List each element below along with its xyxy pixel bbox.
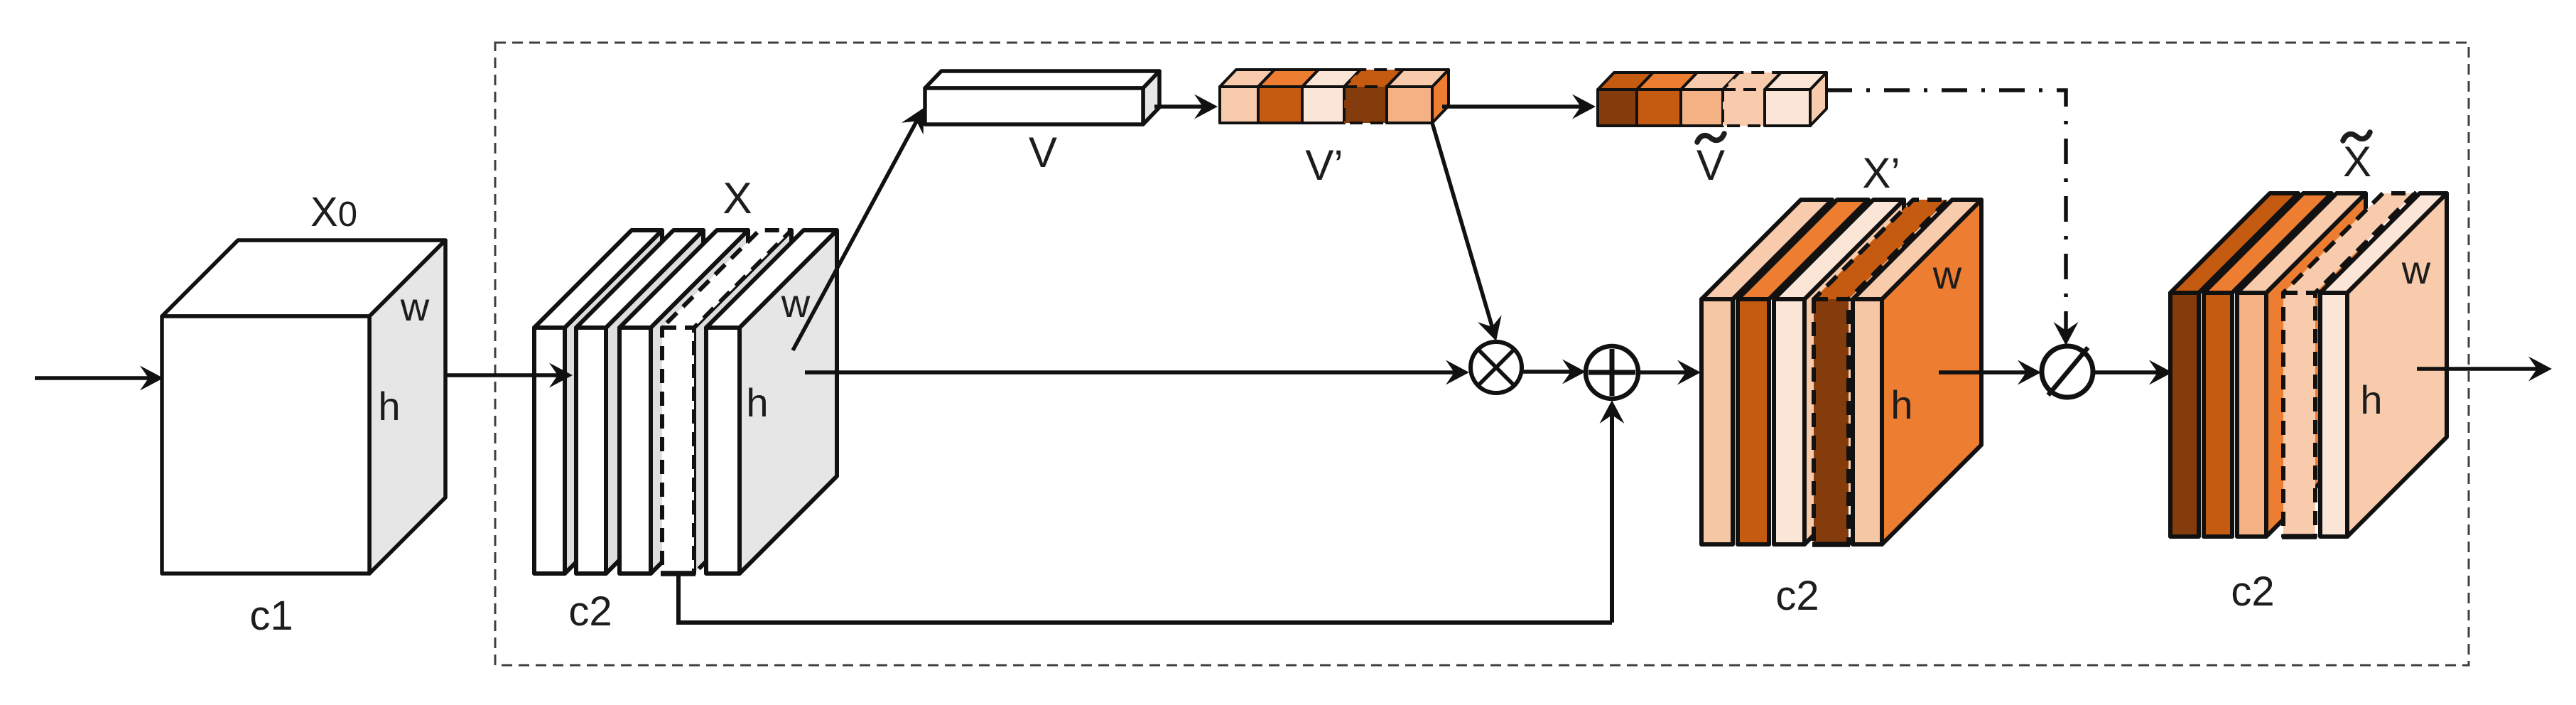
svg-text:w: w xyxy=(400,284,430,329)
X' stack slab 1 xyxy=(1701,200,1832,544)
wire feedback vertical arrow into add node xyxy=(1600,400,1625,623)
vector V' cell 4 (dashed) xyxy=(1344,70,1403,123)
svg-text:w: w xyxy=(2401,247,2431,292)
wire X' to scale node xyxy=(1939,360,2041,385)
wire feedback from X dashed slab to add node xyxy=(678,574,1612,623)
vector V' cell 2 xyxy=(1258,70,1319,123)
vector Vtilde cell 2 xyxy=(1637,72,1697,126)
wire output arrow xyxy=(2417,357,2552,382)
Xtilde stack slab 5 xyxy=(2320,193,2447,537)
wire X to multiply node xyxy=(805,360,1469,385)
svg-text:X: X xyxy=(723,174,752,223)
vector Vtilde cell 4 (dashed) xyxy=(1723,72,1781,126)
vector V' cell 5 xyxy=(1387,70,1449,123)
dashed enclosure box xyxy=(495,43,2469,665)
wire V' to multiply node diagonal arrow xyxy=(1432,123,1502,341)
wire scale node to Xtilde stack xyxy=(2094,360,2172,385)
wire V to V' arrow xyxy=(1154,95,1218,119)
svg-text:X’: X’ xyxy=(1862,149,1900,197)
svg-text:X0: X0 xyxy=(310,189,357,235)
svg-text:w: w xyxy=(781,281,811,325)
svg-text:h: h xyxy=(746,380,768,425)
svg-text:c1: c1 xyxy=(249,593,293,639)
svg-text:c2: c2 xyxy=(2231,569,2274,615)
X' stack slab 5 xyxy=(1853,200,1981,544)
Xtilde stack slab 1 xyxy=(2170,193,2298,537)
vector V' cell 1 xyxy=(1220,70,1275,123)
svg-text:w: w xyxy=(1932,252,1962,297)
vector Vtilde cell 3 xyxy=(1681,72,1739,126)
wire Vtilde to scale node dash-dot line xyxy=(1827,90,2079,345)
X stack slab 4 (dashed) xyxy=(661,230,791,574)
wire X to V diagonal arrow xyxy=(793,108,924,350)
X stack slab 1 xyxy=(534,230,662,574)
add node (circle-plus) xyxy=(1586,346,1638,399)
svg-text:h: h xyxy=(2360,377,2382,422)
svg-text:c2: c2 xyxy=(568,588,612,635)
vector Vtilde end face xyxy=(1810,72,1827,126)
vector V' cell 3 xyxy=(1302,70,1360,123)
scale node (circle-slash) xyxy=(2042,346,2093,397)
svg-text:c2: c2 xyxy=(1775,573,1819,619)
wire add node to X' stack xyxy=(1639,360,1701,385)
X' stack slab 3 xyxy=(1774,200,1904,544)
Xtilde stack slab 2 xyxy=(2204,193,2332,537)
multiply node (circle-cross) xyxy=(1471,342,1522,393)
X' stack slab 2 xyxy=(1738,200,1868,544)
Xtilde stack slab 4 (dashed) xyxy=(2282,193,2415,537)
svg-text:V’: V’ xyxy=(1305,141,1343,189)
cube X0 xyxy=(162,240,445,574)
svg-text:V: V xyxy=(1029,129,1057,176)
vector Vtilde cell 5 xyxy=(1765,72,1827,126)
vector V bar xyxy=(925,71,1159,124)
svg-text:X: X xyxy=(2343,138,2371,185)
X stack slab 3 xyxy=(619,230,748,574)
wire input arrow xyxy=(35,366,163,391)
wire cube to X stack arrow xyxy=(445,363,573,388)
Xtilde stack slab 3 xyxy=(2237,193,2366,537)
vector V' end face xyxy=(1432,70,1449,123)
wire multiply to add node xyxy=(1523,360,1586,384)
vector Vtilde cell 1 xyxy=(1598,72,1653,126)
X stack slab 2 xyxy=(576,230,703,574)
svg-text:h: h xyxy=(1890,382,1912,427)
svg-text:V: V xyxy=(1696,141,1725,189)
wire V' to Vtilde arrow xyxy=(1442,95,1596,119)
svg-text:h: h xyxy=(378,384,400,429)
X stack slab 5 xyxy=(706,230,837,574)
X' stack slab 4 (dashed) xyxy=(1812,200,1948,544)
